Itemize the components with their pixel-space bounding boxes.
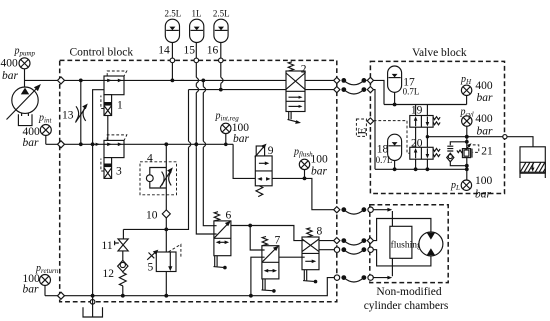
svg-text:9: 9 [268, 145, 274, 157]
accumulator 14 (2.5L) [158, 9, 181, 57]
wire accumulator 15 stem with hops over line1,line2 [196, 43, 214, 235]
load cylinder [520, 147, 545, 178]
svg-text:flushing: flushing [391, 240, 422, 251]
svg-text:bar: bar [233, 133, 250, 145]
wire riser to valve7 upper port [250, 226, 262, 251]
svg-text:cylinder chambers: cylinder chambers [364, 300, 449, 312]
svg-text:12: 12 [103, 268, 115, 280]
svg-text:8: 8 [317, 226, 323, 238]
svg-text:0.7L: 0.7L [403, 87, 420, 97]
wire bus V1 x=188.5 down with hop at 144.3 [123, 90, 190, 230]
svg-text:7: 7 [275, 235, 281, 247]
valve 8 (2/2 with cross) [302, 226, 323, 284]
svg-text:Valve block: Valve block [412, 47, 467, 59]
node diamond on border return line [58, 292, 65, 299]
wire feed bus to valves 19/20 x=415.6 [415, 105, 417, 148]
wire valve11/12 branch x=122.8 [122, 229, 125, 295]
node diamond on border p_int line [58, 141, 65, 148]
check valve 12 with spring [103, 260, 129, 285]
wire main line 2 y=89.6 [189, 89, 287, 91]
flow control 4 [140, 153, 177, 195]
svg-text:E: E [357, 127, 369, 134]
gauge p_H [460, 74, 493, 105]
hydraulic motor [419, 232, 443, 256]
coupling row A [334, 77, 374, 85]
svg-text:400: 400 [475, 113, 493, 125]
coupling row E [334, 247, 373, 254]
svg-text:14: 14 [158, 45, 170, 57]
non-modified cylinder chambers dashed border [370, 205, 448, 283]
svg-text:21: 21 [481, 146, 493, 158]
svg-text:bar: bar [477, 126, 494, 138]
node circle on valve block border [503, 135, 507, 139]
svg-text:4: 4 [147, 153, 153, 165]
node diamond on border line1 [58, 77, 65, 84]
shutoff valve 11 [102, 239, 129, 252]
wire bus V3 x=203.3 down with hops at 89.6,144.3 [203, 80, 214, 225]
svg-text:bar: bar [311, 166, 328, 178]
flushing box [390, 226, 422, 258]
node circle accumulator 15 on border [194, 58, 199, 63]
svg-text:bar: bar [477, 92, 494, 104]
wire valve1 to valve3 left drain x=92.6 [93, 90, 104, 296]
gauge p_int,reg [215, 111, 250, 147]
wire p_int,reg riser to valve 9 [233, 144, 255, 178]
pilot dashed line E to valve 20 [374, 121, 410, 154]
coupling row D [334, 238, 374, 246]
svg-text:2.5L: 2.5L [165, 9, 182, 19]
valve 6 (2/2 boost) [214, 210, 232, 270]
svg-text:11: 11 [102, 240, 113, 252]
wire row A into valve block [374, 80, 385, 104]
solenoid valve 19 [410, 104, 440, 127]
wire valve9 out to p_flush / row C [272, 178, 334, 209]
wire valve7 lower port to return [251, 257, 262, 296]
wire valve block lower line y=169.3 [375, 168, 467, 170]
svg-text:Control block: Control block [70, 47, 134, 59]
wire main line 1 (pump pressure) y=80.4 [25, 79, 287, 81]
svg-text:100: 100 [311, 153, 329, 165]
solenoid valve 20 [410, 138, 440, 172]
wire bus x=427.4 through valves [426, 105, 428, 170]
wire valve7 out to valve8 lower port [279, 256, 302, 258]
throttle valve 9 [255, 144, 274, 197]
svg-text:20: 20 [411, 138, 423, 150]
wire valve2 outputs to couplings A,B [305, 80, 334, 89]
relief valve 5 [147, 244, 181, 273]
wire accumulator 16 stem with hop over line1 [220, 43, 222, 90]
svg-text:2.5L: 2.5L [213, 9, 230, 19]
gauge p_return [23, 263, 59, 296]
svg-text:13: 13 [62, 110, 74, 122]
wire comp4/5 branch x=166.3 [165, 144, 167, 295]
flow arrow on p_int line [96, 143, 100, 146]
node E diamond on border [367, 118, 373, 124]
svg-text:400: 400 [1, 58, 19, 70]
svg-text:1: 1 [117, 100, 123, 112]
wire main line p_int y=144.3 [46, 143, 233, 145]
wire relief 21 main vertical [466, 137, 468, 181]
svg-text:15: 15 [184, 45, 196, 57]
svg-text:100: 100 [475, 175, 493, 187]
control block dashed border [60, 60, 337, 301]
gauge p_pump [1, 46, 36, 83]
valve 7 (2/2) [262, 235, 281, 293]
gauge p_cyl [460, 107, 494, 138]
svg-text:10: 10 [146, 210, 158, 222]
wire row D to motor top [374, 219, 431, 241]
node circle accumulator 14 on border [170, 58, 175, 63]
svg-text:19: 19 [411, 104, 423, 116]
svg-text:bar: bar [2, 70, 19, 82]
wire orifice-13 branch x=80.8 [80, 80, 82, 144]
E pilot label box [356, 119, 368, 136]
valve 1 pressure reducing [101, 71, 127, 116]
wire valve8 outputs to couplings D,E [319, 241, 334, 250]
pump P1 variable displacement [7, 84, 41, 126]
tank symbol [83, 296, 103, 317]
coupling row B [334, 87, 374, 95]
relief valve 21 [457, 143, 493, 157]
accumulator 15 (1L) [184, 9, 204, 57]
svg-text:1L: 1L [192, 9, 202, 19]
svg-text:6: 6 [226, 210, 232, 222]
svg-text:5: 5 [148, 262, 154, 274]
wire p_cyl line to cylinder [427, 137, 533, 147]
wire pump to line1 stem [24, 69, 26, 88]
coupling row F [334, 275, 373, 282]
gauge p_int [23, 113, 53, 150]
svg-text:Non-modified: Non-modified [376, 286, 441, 298]
wire row C to flushing box [374, 210, 393, 227]
accumulator 18 (0.7L) [376, 134, 402, 171]
svg-text:0.7L: 0.7L [376, 155, 393, 165]
valve 2 [286, 62, 307, 124]
check valve bypass of 21 [447, 142, 467, 166]
svg-text:16: 16 [207, 45, 219, 57]
svg-text:bar: bar [23, 284, 40, 296]
svg-text:3: 3 [116, 166, 122, 178]
wire valve1 bottom to valve3 top [107, 116, 109, 141]
valve block dashed border [370, 61, 504, 193]
node circle accumulator 16 on border [219, 58, 224, 63]
svg-text:400: 400 [475, 80, 493, 92]
accumulator 17 (0.7L) [388, 66, 420, 106]
svg-text:bar: bar [475, 189, 492, 201]
wire row E to motor bottom [374, 250, 431, 266]
coupling row C [334, 207, 374, 215]
wire return line y=295.7 [45, 278, 334, 296]
gauge p_L [450, 175, 493, 201]
valve 3 pressure reducing [101, 135, 127, 179]
variable orifice 13 [62, 104, 88, 123]
wire row B into valve block [374, 90, 376, 170]
gauge p_flush [293, 147, 328, 179]
wire valve6 out line y=225.5 [231, 226, 302, 241]
wire valve block supply line y=104.5 [384, 104, 467, 106]
svg-text:bar: bar [23, 137, 40, 149]
accumulator 16 (2.5L) [207, 9, 230, 57]
svg-text:18: 18 [377, 144, 389, 156]
node diamond 10 [162, 210, 170, 218]
wire accumulator 14 stem [171, 43, 173, 81]
wire row F to flushing box [374, 258, 393, 277]
svg-text:2: 2 [301, 64, 307, 76]
